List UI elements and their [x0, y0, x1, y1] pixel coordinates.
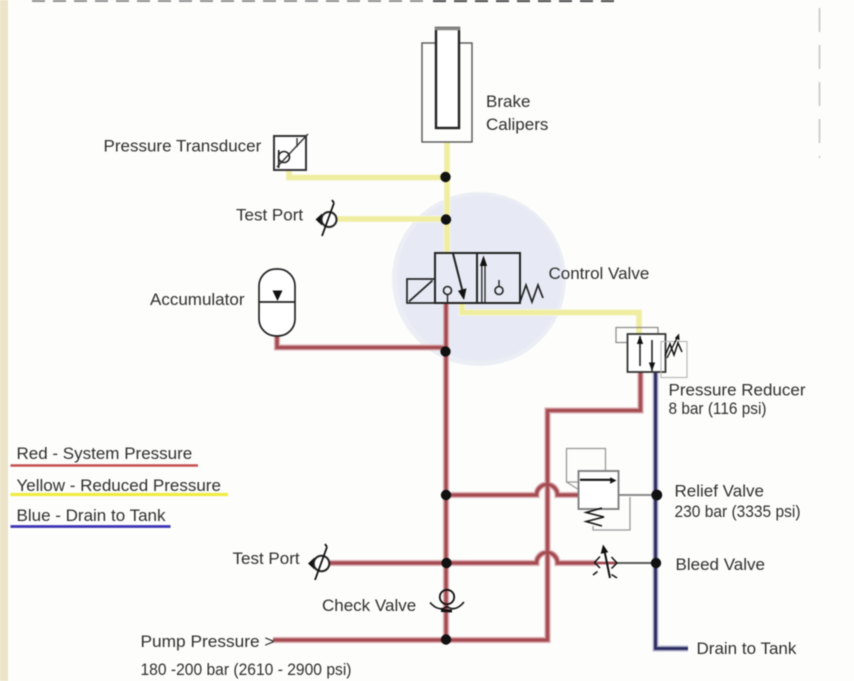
svg-text:Test Port: Test Port	[236, 206, 303, 225]
svg-text:8 bar (116 psi): 8 bar (116 psi)	[669, 399, 767, 418]
svg-text:Test Port: Test Port	[233, 549, 300, 568]
svg-text:Calipers: Calipers	[486, 115, 548, 134]
svg-text:Drain to Tank: Drain to Tank	[697, 639, 797, 658]
svg-text:Check Valve: Check Valve	[322, 596, 416, 615]
svg-text:Relief Valve: Relief Valve	[675, 482, 764, 501]
svg-text:Bleed Valve: Bleed Valve	[676, 555, 765, 574]
svg-text:Yellow - Reduced Pressure: Yellow - Reduced Pressure	[17, 476, 221, 495]
svg-text:Brake: Brake	[486, 92, 530, 111]
svg-text:Pump Pressure >: Pump Pressure >	[141, 632, 275, 651]
svg-text:180 -200 bar (2610 - 2900 psi): 180 -200 bar (2610 - 2900 psi)	[141, 660, 352, 679]
svg-text:Pressure Transducer: Pressure Transducer	[104, 137, 262, 156]
svg-text:Control Valve: Control Valve	[549, 264, 650, 283]
svg-text:Pressure Reducer: Pressure Reducer	[669, 381, 806, 400]
svg-text:Red - System Pressure: Red - System Pressure	[17, 444, 193, 463]
svg-text:230 bar (3335 psi): 230 bar (3335 psi)	[675, 502, 801, 521]
svg-text:Accumulator: Accumulator	[150, 290, 245, 309]
svg-text:Blue - Drain to Tank: Blue - Drain to Tank	[17, 506, 166, 525]
